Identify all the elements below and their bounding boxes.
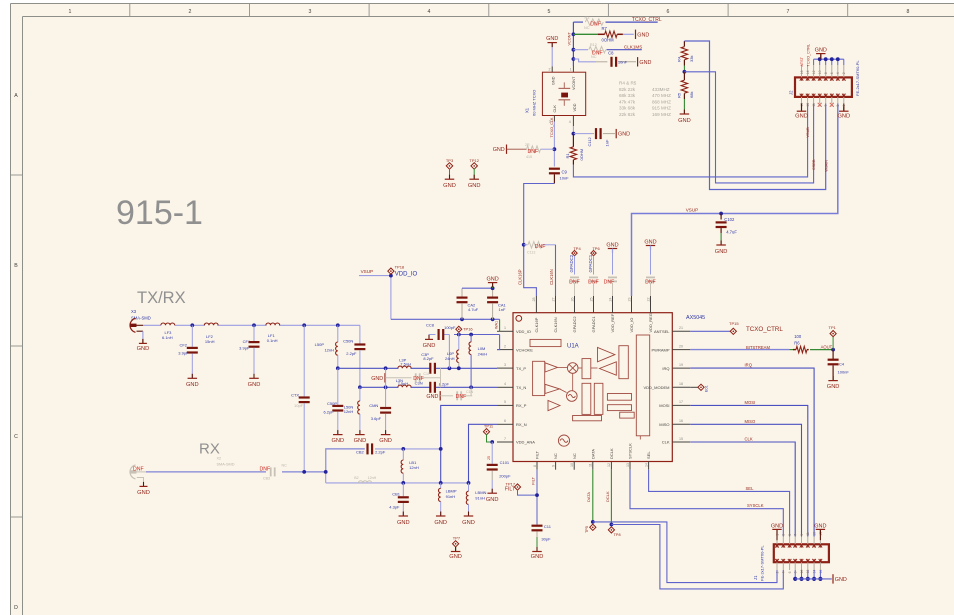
capacitor C9 10nF: [549, 168, 569, 184]
svg-text:GND: GND: [248, 382, 261, 388]
svg-text:AOUT: AOUT: [821, 345, 833, 350]
inductor LF2 15nH: [204, 323, 218, 344]
svg-text:FE-2x17-SMT60-PL: FE-2x17-SMT60-PL: [760, 545, 765, 581]
capacitor C1N (DNF, not fitted): [440, 387, 473, 400]
wire RX_N route: [469, 424, 498, 483]
ground below X3: [137, 339, 150, 352]
test point TP3: [446, 158, 454, 179]
svg-text:22k 82k: 22k 82k: [619, 112, 636, 117]
frame row letters: [14, 93, 18, 611]
svg-text:10: 10: [818, 70, 822, 74]
node rxp-cb2: [439, 447, 443, 451]
svg-text:C50P: C50P: [327, 401, 337, 406]
wire rx input: [146, 449, 365, 472]
svg-text:2: 2: [549, 68, 551, 72]
resistor R1 0OHM: [565, 134, 584, 165]
wire tcxo vdd column: [572, 116, 574, 134]
node clk-dnf: [553, 147, 557, 151]
wire CSDB net divider to J2 pin11: [684, 72, 813, 183]
test point TP17 FILT: [505, 481, 537, 495]
frame column numbers: [69, 9, 910, 15]
svg-text:GND: GND: [678, 118, 691, 124]
connector X3 SMA-SMD: [130, 309, 151, 343]
inductor LB1 12nH: [401, 449, 419, 483]
capacitor CB1 4.3pF: [389, 483, 409, 516]
svg-text:19: 19: [679, 363, 683, 367]
capacitor CF2 3.9pF: [178, 325, 198, 378]
svg-text:3: 3: [504, 363, 506, 367]
svg-text:TP11: TP11: [484, 424, 494, 429]
svg-text:DNF: DNF: [590, 21, 601, 27]
U1A top pins: [532, 296, 653, 333]
capacitor C3P 8.2pF: [421, 352, 436, 374]
svg-text:433MHZ: 433MHZ: [652, 87, 670, 92]
svg-text:DCLK: DCLK: [605, 491, 610, 502]
svg-text:GND: GND: [637, 32, 649, 38]
svg-text:GND: GND: [815, 48, 827, 54]
inductor L3P 7.5nH: [398, 357, 411, 368]
svg-text:D: D: [14, 605, 18, 611]
wire tcxo clk column: [550, 116, 555, 167]
svg-text:GND: GND: [137, 346, 150, 352]
svg-text:915-1: 915-1: [116, 194, 203, 232]
svg-text:24nH: 24nH: [445, 356, 455, 361]
svg-text:CLK16P: CLK16P: [517, 269, 522, 285]
svg-text:RX_N: RX_N: [516, 422, 527, 427]
wire FILT column: [531, 470, 537, 525]
svg-text:6: 6: [667, 9, 670, 15]
svg-text:GND: GND: [371, 376, 383, 382]
svg-text:4.7uF: 4.7uF: [468, 307, 479, 312]
node clk16 split: [522, 243, 526, 247]
svg-text:13: 13: [806, 103, 810, 107]
svg-text:25: 25: [589, 298, 593, 302]
wire DCLK to J1 pin4: [611, 525, 783, 589]
wire DATA to J1 pin2: [593, 522, 777, 583]
resistor R5 68k: [677, 72, 695, 114]
ground below TP12: [468, 175, 481, 190]
svg-text:VDD_IO: VDD_IO: [395, 272, 418, 278]
svg-text:VDD_REG: VDD_REG: [648, 313, 653, 332]
ground below TP7: [449, 547, 462, 560]
svg-text:J1: J1: [753, 575, 758, 580]
capacitor CMN 3.6pF: [369, 368, 391, 434]
svg-text:C112: C112: [587, 136, 592, 146]
svg-text:NC: NC: [584, 26, 590, 30]
wire VSUB net to J2 pin13: [573, 104, 807, 177]
inductor LF3 6.1nH: [161, 323, 175, 340]
svg-text:TP15: TP15: [729, 321, 739, 326]
no-connect J2 pin5: [830, 103, 834, 107]
capacitor DNF on GPADC2 (not fitted): [569, 277, 580, 297]
svg-text:GND: GND: [531, 554, 544, 560]
svg-text:GND: GND: [331, 438, 344, 444]
svg-text:GND: GND: [546, 36, 558, 42]
svg-text:FE-2x17-SMT60-PL: FE-2x17-SMT60-PL: [855, 60, 860, 96]
capacitor CA1 1nF: [487, 288, 506, 319]
tcxo X1: [525, 68, 586, 125]
svg-text:22: 22: [646, 298, 650, 302]
node rx input: [324, 470, 328, 474]
svg-text:12nH: 12nH: [324, 347, 334, 352]
svg-text:24: 24: [608, 298, 612, 302]
svg-text:CLK: CLK: [662, 440, 670, 445]
svg-text:MISO: MISO: [745, 419, 756, 424]
J1 bottom ground rail: [793, 570, 832, 581]
node vcont-c8: [572, 57, 576, 61]
svg-text:1nF: 1nF: [604, 139, 609, 146]
svg-text:GND: GND: [606, 242, 618, 248]
inductor L50P 12nH: [315, 325, 338, 368]
svg-text:30pF: 30pF: [541, 537, 551, 542]
svg-text:1: 1: [504, 326, 506, 330]
svg-text:GND: GND: [715, 249, 728, 255]
wire BITSTREAM / AOUT: [690, 345, 833, 350]
svg-text:2R: 2R: [525, 143, 530, 147]
capacitor DNF on GPADC1 (not fitted): [588, 277, 599, 297]
svg-text:2.2pF: 2.2pF: [346, 351, 357, 356]
svg-text:11: 11: [806, 532, 810, 536]
svg-text:TCXO_CTRL: TCXO_CTRL: [632, 17, 662, 23]
svg-text:GND: GND: [644, 239, 656, 245]
svg-text:25: 25: [487, 456, 491, 460]
J2 top ground rail: [814, 57, 844, 65]
svg-text:TP1: TP1: [829, 325, 837, 330]
svg-text:AX5045: AX5045: [686, 315, 705, 321]
svg-text:6: 6: [788, 571, 792, 573]
inductor LB2 (DNF ghost): [354, 476, 376, 483]
wire TX_P row: [338, 367, 497, 369]
svg-text:24nH: 24nH: [478, 352, 488, 357]
svg-text:LBMN: LBMN: [475, 490, 486, 495]
wire tcxo pin2 to GND: [551, 43, 553, 72]
svg-text:TX_P: TX_P: [516, 366, 526, 371]
svg-text:CLK16N: CLK16N: [553, 317, 558, 332]
svg-text:SEL: SEL: [646, 451, 651, 459]
ground above VDD_REG pin: [644, 239, 656, 274]
resistor R6 100: [793, 334, 809, 353]
svg-text:IRQ: IRQ: [662, 366, 669, 371]
svg-text:7.5nH: 7.5nH: [398, 381, 409, 386]
svg-text:10: 10: [570, 463, 574, 467]
svg-text:MOSI: MOSI: [659, 403, 669, 408]
wire clk16 route: [517, 184, 554, 297]
ground left of C1N (DNF row): [426, 391, 440, 400]
svg-text:TP5: TP5: [585, 526, 589, 533]
ground below CC8: [423, 335, 436, 349]
svg-text:GND: GND: [486, 276, 498, 282]
test point TP1: [829, 325, 837, 350]
test point TP4 / GPADC2: [569, 246, 582, 275]
wire TX_N row: [360, 386, 497, 388]
svg-text:GPADC1: GPADC1: [591, 316, 596, 333]
svg-text:2: 2: [189, 9, 192, 15]
svg-text:8: 8: [824, 72, 828, 74]
svg-text:GND: GND: [468, 183, 481, 189]
svg-text:MISO: MISO: [659, 422, 669, 427]
svg-text:DATA: DATA: [586, 492, 591, 502]
svg-text:3: 3: [782, 534, 786, 536]
ground above J2: [815, 48, 827, 60]
svg-text:TP8: TP8: [614, 533, 621, 537]
svg-text:GND: GND: [379, 438, 392, 444]
svg-text:R6: R6: [794, 341, 800, 346]
capacitor C3N 8.2pF: [415, 381, 450, 393]
svg-text:4: 4: [569, 120, 571, 124]
svg-text:B2: B2: [354, 476, 358, 480]
svg-text:VSUP: VSUP: [361, 269, 374, 274]
svg-text:C113: C113: [527, 251, 535, 255]
svg-text:DNF: DNF: [535, 244, 546, 250]
ground left of C1P (DNF row): [371, 373, 385, 382]
ground right of C112: [616, 129, 630, 138]
svg-text:CF2: CF2: [179, 342, 187, 347]
svg-text:X2: X2: [217, 457, 222, 461]
node vsup-c102: [719, 212, 723, 216]
ground above tcxo pin2: [546, 36, 558, 47]
svg-text:PWRAMP: PWRAMP: [652, 347, 670, 352]
svg-text:C1P: C1P: [423, 372, 431, 376]
svg-text:10nF: 10nF: [618, 59, 628, 64]
wire DATA green stub: [586, 470, 593, 522]
svg-text:VMAIN: VMAIN: [825, 160, 829, 172]
svg-text:47k 47k: 47k 47k: [619, 99, 636, 104]
svg-text:L0M: L0M: [478, 346, 486, 351]
capacitor CC8 100pF: [426, 323, 456, 341]
svg-text:E01: E01: [705, 385, 709, 392]
svg-text:9: 9: [800, 534, 804, 536]
node filt: [535, 493, 539, 497]
svg-text:GND: GND: [795, 114, 808, 120]
resistor R7 0OHM: [598, 26, 634, 42]
ground above CA1: [486, 276, 498, 287]
svg-text:X3: X3: [131, 309, 137, 314]
node txp-cmn: [384, 366, 388, 370]
svg-text:91nH: 91nH: [475, 495, 485, 500]
svg-text:13: 13: [626, 463, 630, 467]
svg-text:12nH: 12nH: [409, 465, 419, 470]
svg-text:4: 4: [428, 9, 431, 15]
node main-l50p: [336, 323, 340, 327]
inductor LF1 0.1nH: [266, 323, 280, 343]
svg-text:20: 20: [679, 344, 683, 348]
svg-text:5: 5: [788, 534, 792, 536]
svg-text:BITSTREAM: BITSTREAM: [746, 345, 770, 350]
svg-text:TCXO_CLK: TCXO_CLK: [550, 117, 554, 138]
svg-text:GPADC2: GPADC2: [569, 254, 574, 272]
svg-text:FILT: FILT: [535, 451, 540, 459]
wire RX_P route: [441, 405, 497, 483]
svg-text:CB1: CB1: [392, 492, 401, 497]
svg-text:DATA: DATA: [590, 449, 595, 459]
capacitor C11 30pF: [532, 524, 552, 551]
node rxp-rail: [439, 481, 443, 485]
svg-text:4: 4: [836, 72, 840, 74]
svg-text:100: 100: [794, 334, 802, 339]
svg-text:GND: GND: [186, 382, 199, 388]
test point E01 on VDD_MODEM: [690, 384, 708, 392]
ground below J2 pin1: [837, 104, 850, 120]
svg-text:GND: GND: [835, 577, 847, 583]
svg-text:6: 6: [830, 72, 834, 74]
svg-text:12nH: 12nH: [368, 476, 377, 480]
ground below C101: [486, 489, 499, 504]
capacitor CB2 2.2pF: [356, 443, 441, 454]
ground below CMN: [379, 430, 392, 444]
svg-text:GND: GND: [486, 497, 499, 503]
svg-text:VSUP: VSUP: [686, 208, 699, 213]
svg-text:VDD_IO: VDD_IO: [629, 318, 634, 333]
svg-text:GND: GND: [814, 523, 826, 529]
svg-text:WA1: WA1: [495, 321, 499, 329]
svg-text:21: 21: [679, 326, 683, 330]
ground below CF1: [248, 374, 261, 388]
wire vcont vertical: [568, 22, 574, 72]
resistor R12 (DNF, not fitted): [589, 43, 606, 59]
inductor LBMN 91nH: [466, 483, 486, 516]
svg-text:LBMP: LBMP: [446, 489, 457, 494]
svg-text:16: 16: [800, 70, 804, 74]
wire SEL to J1: [649, 470, 790, 537]
wire to R7: [573, 33, 597, 35]
wire clk16n: [549, 245, 555, 296]
svg-text:2: 2: [504, 344, 506, 348]
svg-text:DNF: DNF: [260, 466, 271, 472]
test point TP12: [469, 158, 479, 179]
svg-text:C4: C4: [839, 362, 845, 367]
svg-text:CLK: CLK: [553, 105, 557, 113]
svg-text:C101: C101: [500, 460, 510, 465]
capacitor CTX 10pF: [291, 325, 310, 472]
ground below J2 pin15: [795, 104, 808, 120]
ground below R5: [678, 110, 691, 124]
svg-text:868 MHZ: 868 MHZ: [652, 99, 671, 104]
svg-text:TCXO_CTRL: TCXO_CTRL: [806, 44, 810, 67]
inductor L0P 24nH: [445, 335, 461, 371]
svg-text:GND: GND: [426, 394, 438, 400]
svg-text:GND: GND: [493, 147, 505, 153]
svg-text:3: 3: [309, 9, 312, 15]
svg-text:1: 1: [570, 68, 572, 72]
wire CLK to J1: [690, 437, 795, 537]
svg-text:0.1nH: 0.1nH: [267, 338, 278, 343]
svg-text:TCXO_CTRL: TCXO_CTRL: [746, 326, 783, 333]
capacitor C1P (DNF, not fitted): [385, 368, 441, 387]
connector X2 SMA (DNF, not fitted): [130, 457, 235, 479]
svg-text:GND: GND: [137, 490, 150, 496]
test point TP7: [452, 536, 460, 552]
svg-text:R5: R5: [677, 92, 682, 98]
svg-text:X1: X1: [525, 107, 530, 113]
svg-text:GND: GND: [449, 554, 462, 560]
svg-text:DNF: DNF: [604, 279, 615, 285]
J2 bottom pins: [800, 94, 846, 107]
inductor LBMP 91nH: [439, 483, 457, 516]
capacitor C50P 6.2pF: [323, 368, 343, 434]
svg-text:CLK: CLK: [745, 437, 753, 442]
test point TP11: [483, 424, 494, 442]
node txn-l0m: [469, 385, 473, 389]
ground left of R13: [493, 145, 507, 154]
svg-text:GND: GND: [771, 523, 783, 529]
svg-text:TP3: TP3: [446, 158, 454, 163]
svg-text:GND: GND: [552, 76, 556, 85]
svg-text:CLK1MS: CLK1MS: [624, 45, 642, 50]
svg-text:3.9pF: 3.9pF: [178, 350, 189, 355]
svg-text:415: 415: [526, 155, 532, 159]
capacitor C112 1nF: [573, 128, 615, 146]
svg-text:7: 7: [794, 534, 798, 536]
node rail-ca2: [460, 317, 464, 321]
svg-text:RX: RX: [199, 441, 220, 458]
svg-text:TP16: TP16: [463, 326, 473, 331]
node vddana: [490, 440, 494, 444]
inductor L50N 12nH: [344, 387, 360, 434]
wire TCXO_CTRL net: [573, 21, 657, 23]
svg-text:R12: R12: [590, 43, 597, 47]
svg-text:100nF: 100nF: [838, 370, 850, 375]
svg-text:GND: GND: [837, 114, 850, 120]
svg-text:DCLK: DCLK: [609, 448, 614, 459]
ground below C50P: [331, 430, 344, 444]
svg-text:GND: GND: [618, 132, 630, 138]
svg-text:GND: GND: [354, 438, 367, 444]
svg-text:CB2: CB2: [356, 450, 365, 455]
svg-text:RX_P: RX_P: [516, 403, 527, 408]
resistor R14 (DNF, not fitted): [524, 242, 556, 255]
U1A left pins: [497, 326, 535, 445]
svg-text:DNF: DNF: [569, 279, 580, 285]
svg-text:SMA-SMD: SMA-SMD: [217, 463, 235, 467]
svg-text:SYSCLK: SYSCLK: [628, 443, 633, 459]
svg-text:CTX: CTX: [291, 393, 299, 398]
svg-text:R4 & R5: R4 & R5: [619, 81, 637, 86]
svg-text:DNF: DNF: [413, 376, 424, 382]
svg-text:26: 26: [570, 298, 574, 302]
wire SYSCLK to J1: [630, 470, 783, 537]
J1 top pins: [775, 532, 823, 548]
svg-text:GPADC2: GPADC2: [572, 316, 577, 333]
svg-text:915 MHZ: 915 MHZ: [652, 106, 671, 111]
svg-text:12: 12: [812, 70, 816, 74]
svg-text:GND: GND: [462, 520, 475, 526]
wire MISO to J1: [690, 419, 801, 537]
svg-text:14: 14: [644, 463, 648, 467]
svg-text:DNF: DNF: [645, 279, 656, 285]
wire rf main line: [143, 324, 360, 326]
ground right of R7: [636, 30, 650, 39]
ground below C102: [715, 241, 728, 256]
svg-text:8: 8: [907, 9, 910, 15]
svg-text:VDD_IO: VDD_IO: [516, 329, 531, 334]
svg-text:R4: R4: [677, 56, 682, 62]
connector J1 FE-2x17-SMT60-PL: [753, 544, 829, 581]
svg-text:68k 33k: 68k 33k: [619, 93, 636, 98]
svg-text:CLK16N: CLK16N: [549, 269, 554, 285]
svg-text:DNF: DNF: [456, 394, 467, 400]
ground below CF2: [186, 374, 199, 388]
node aout: [831, 348, 835, 352]
svg-text:R3: R3: [585, 16, 590, 20]
ground below C4: [827, 376, 840, 390]
svg-text:3.6pF: 3.6pF: [371, 416, 382, 421]
svg-text:TP7: TP7: [453, 536, 461, 541]
svg-text:470 MHZ: 470 MHZ: [652, 93, 671, 98]
svg-text:100pF: 100pF: [444, 325, 456, 330]
svg-text:CB3: CB3: [263, 477, 270, 481]
svg-text:15: 15: [679, 437, 683, 441]
node main-ctx: [302, 323, 306, 327]
